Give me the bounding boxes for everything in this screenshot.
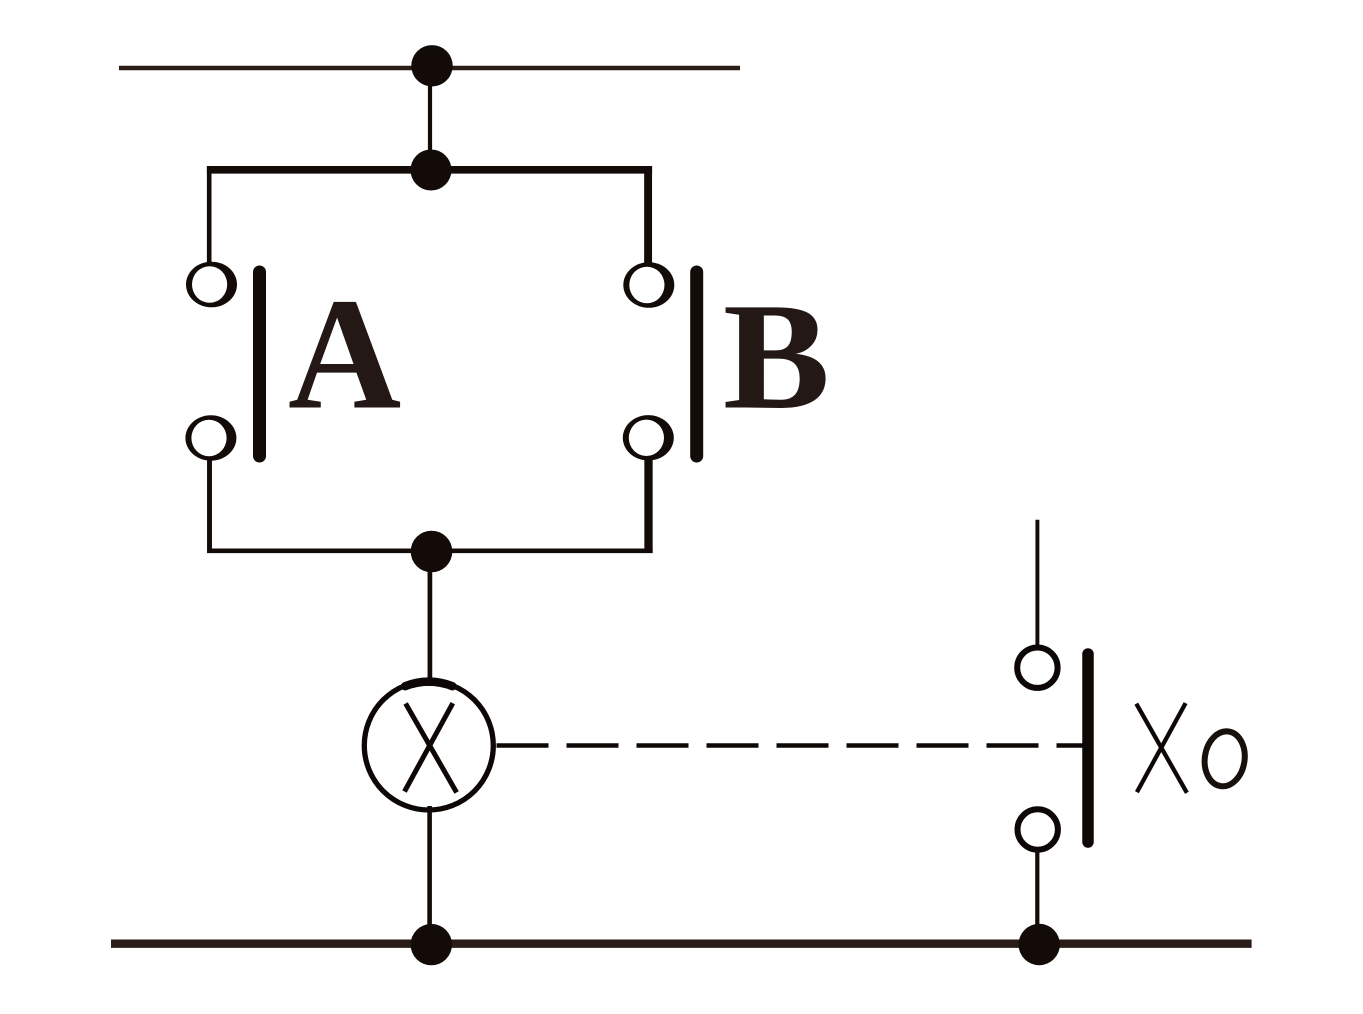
wire bottom bus rail: [111, 940, 1252, 948]
wire right drop to contact B: [644, 166, 652, 263]
wire dashed link from lamp X to contact X0: [497, 743, 1083, 748]
contact X0 top terminal circle: [1017, 648, 1057, 688]
contact A movable bar: [253, 272, 266, 456]
label X0: X stroke 2: [1137, 703, 1186, 792]
wire below contact X0 to bus: [1035, 850, 1039, 941]
wire top supply rail: [119, 66, 740, 70]
lamp X glyph stroke 2: [405, 703, 453, 791]
node junction dot on top rail: [411, 45, 452, 86]
wire branch bottom rail: [207, 548, 652, 553]
contact B bottom terminal circle: [623, 415, 674, 460]
lamp X glyph stroke 1: [406, 704, 457, 793]
lamp X coil circle: [364, 681, 493, 810]
svg-text:B: B: [723, 271, 830, 441]
wire stub above contact X0: [1035, 520, 1039, 648]
wire from junction down to lamp X: [428, 551, 433, 686]
contact X0 movable bar: [1082, 654, 1094, 842]
wire from lamp X down to bottom bus: [427, 806, 432, 943]
wire below contact A: [207, 458, 212, 553]
contact A (NO pushbutton): top terminal circle: [186, 262, 237, 308]
wire vertical from top rail to branch rail: [428, 66, 432, 170]
wire left drop to contact A: [207, 166, 212, 263]
contact A bottom terminal circle: [185, 415, 236, 460]
contact B movable bar: [690, 272, 703, 456]
node junction dot on branch rail: [411, 150, 452, 191]
svg-text:A: A: [288, 266, 401, 443]
contact B (NO pushbutton): top terminal circle: [623, 262, 674, 308]
label X0: X stroke 1: [1136, 704, 1187, 793]
node junction dot X0-bus: [1018, 924, 1059, 965]
node junction dot on branch bottom rail: [411, 531, 453, 573]
node junction dot lamp-bus: [411, 924, 452, 965]
label X0: subscript o: [1201, 729, 1248, 789]
wire below contact B: [644, 459, 652, 553]
wire branch top rail: [207, 166, 652, 174]
contact X0 bottom terminal circle: [1017, 809, 1057, 849]
